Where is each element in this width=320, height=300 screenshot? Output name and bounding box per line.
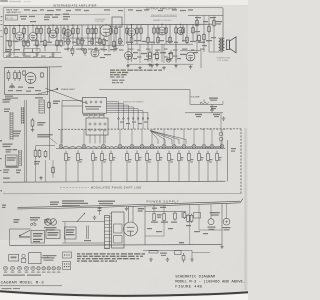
right second verticals [131, 44, 133, 62]
ps terminal T2 [82, 144, 86, 148]
module label strip [83, 114, 104, 115]
sub bus wire [5, 13, 110, 16]
ps coil L13 [214, 147, 220, 149]
resistor R31 [14, 70, 17, 81]
bl arrow [41, 257, 49, 259]
tc vert lines [35, 158, 37, 182]
ps resistor PR13 [198, 151, 201, 164]
osc labels A [24, 49, 33, 53]
osc bottom marks [8, 90, 41, 92]
svg-text:POWER SUPPLY: POWER SUPPLY [147, 199, 180, 203]
top-left corner smudge [0, 0, 31, 2]
rectifier drops [128, 206, 130, 222]
left section chains [5, 26, 7, 52]
paper blotches [0, 0, 248, 300]
left lower bus [4, 57, 62, 59]
lm mid labels [13, 131, 21, 137]
mid grounds [66, 47, 70, 51]
tc box [6, 155, 17, 166]
module lower terminals row2 [89, 129, 91, 131]
power section separator [3, 193, 241, 195]
resistor R51 [48, 101, 51, 109]
if can label [35, 97, 43, 98]
osc inner extra [23, 70, 26, 76]
ps resistor PR3 [92, 151, 95, 164]
socket caption [3, 275, 41, 276]
right page shadow band [243, 128, 248, 290]
lm labels top [3, 99, 11, 112]
out trans label [210, 212, 220, 216]
tc labels [6, 149, 17, 153]
ps coil L10 [186, 147, 192, 149]
coil L11 [20, 107, 22, 124]
svg-text:MODULATED PHASE SHIFT LINE: MODULATED PHASE SHIFT LINE [91, 187, 142, 190]
ps coil L6 [144, 147, 150, 149]
r51 label [53, 101, 60, 105]
ps terminal T14 [220, 144, 224, 148]
value labels row1 [6, 40, 210, 43]
ps inner right edge [227, 140, 229, 181]
ps enclosure top [58, 128, 241, 131]
filter res R40 [174, 212, 177, 221]
ps right lamp [219, 132, 223, 136]
mid osc labels [63, 14, 70, 20]
tube socket S4 [24, 266, 28, 270]
speaker LS1 [227, 37, 237, 53]
phono motor M1 [45, 219, 57, 226]
cap C11 [166, 58, 170, 62]
wave trap coil box [6, 16, 18, 21]
top labels left [50, 200, 115, 206]
mid h-wires [62, 37, 100, 39]
subtitle underline [151, 16, 178, 18]
bl box T2 [9, 255, 19, 262]
vibrato comps [149, 50, 152, 61]
ac entry marks [2, 205, 6, 209]
ps terminal T3 [102, 144, 106, 148]
wire plate to transformer [222, 8, 224, 38]
right section chains [126, 25, 128, 44]
wire vert x49 [49, 67, 51, 131]
bm resistor [149, 251, 158, 253]
ps resistor PR4 [101, 151, 104, 164]
fan labels [120, 122, 148, 125]
tc resistors [34, 149, 37, 158]
ps coil L5 [134, 147, 140, 149]
r50 label [37, 122, 45, 126]
right low wire [127, 63, 193, 65]
ps coil L1 [63, 147, 82, 149]
phase shift arrow left [36, 89, 58, 95]
right low labels [133, 52, 198, 55]
fuse marks [98, 208, 102, 212]
ps terminal T1 [59, 144, 63, 148]
svg-text:COUPLING: COUPLING [95, 21, 105, 23]
connector strip A [105, 216, 110, 249]
left top labels [20, 16, 58, 22]
tc comp right [44, 150, 47, 158]
bm comp 3 [182, 253, 185, 263]
junction dots [19, 24, 198, 27]
value labels row2 [64, 49, 205, 51]
svg-text:AMPLIFIER R.F.: AMPLIFIER R.F. [7, 11, 22, 14]
left edge specks [0, 140, 2, 191]
ps enclosure right [240, 129, 242, 194]
supply extra labels [147, 228, 208, 234]
bl big box [29, 253, 41, 264]
cap drops [153, 205, 155, 214]
oscillator enclosure [5, 68, 48, 95]
ps coil L2 [86, 147, 102, 149]
svg-text:PHASE SHIFT: PHASE SHIFT [61, 88, 76, 91]
tube V2 [29, 33, 37, 41]
bl caption [43, 255, 57, 261]
ps coil L9 [176, 147, 182, 149]
br drop wire [191, 250, 193, 257]
ps bus line 1 [18, 201, 241, 207]
switch lever 2 [77, 214, 85, 222]
left grounds [8, 53, 12, 57]
ps coil L3 [105, 147, 118, 149]
interlock box [65, 227, 77, 239]
rect box [46, 230, 60, 239]
tc coil [18, 150, 20, 166]
supply ground G60 [93, 216, 97, 220]
wire voice coil top [195, 15, 223, 17]
voltages note [110, 70, 162, 71]
fan wires [107, 102, 149, 130]
choke col [86, 226, 88, 240]
output resistors [196, 16, 198, 53]
ps top dots [153, 129, 231, 130]
volume pot R33 [200, 102, 209, 105]
cap can C21 [208, 219, 214, 225]
mid section chains [63, 25, 65, 46]
tube V5b second row [91, 49, 99, 57]
ps resistor PR12 [188, 151, 191, 164]
ac rating label [14, 219, 20, 223]
ps terminal T4 [118, 144, 122, 148]
osc labels text [5, 49, 20, 52]
tube V7 [158, 27, 166, 35]
module upper marks [85, 106, 101, 110]
wire lm bottom [36, 145, 55, 147]
volume ground [222, 117, 226, 121]
tube socket S10 [57, 267, 61, 271]
tube V3 [49, 30, 57, 38]
bm wire [143, 249, 192, 251]
mid note block [77, 253, 145, 254]
supply wire mid [145, 211, 186, 213]
ps right labels [231, 148, 236, 152]
osc sub labels [45, 14, 60, 15]
right h-wires [127, 43, 193, 45]
ps terminal T12 [202, 144, 206, 148]
tc ground [39, 176, 43, 180]
shield box top mid [112, 17, 122, 27]
supply bottom bus [10, 244, 223, 247]
right supply drop [221, 204, 223, 245]
ps resistor PR11 [178, 151, 181, 164]
leader to terminal [50, 138, 57, 144]
bm ground 2 [166, 258, 170, 262]
svg-text:INTERMEDIATE AMPLIFIER: INTERMEDIATE AMPLIFIER [53, 3, 97, 7]
module left wires [62, 100, 82, 102]
tube V12 second row left [125, 52, 133, 60]
connector tail 1 [63, 252, 72, 258]
ps terminal T6 [140, 144, 144, 148]
tone label [209, 98, 218, 101]
section divider [124, 8, 126, 45]
ps resistor PR15 [216, 151, 219, 164]
ps resistor PR9 [157, 151, 160, 164]
ps coil L7 [154, 147, 162, 149]
if can T3 [39, 100, 45, 113]
svg-text:VIBRATO CONTROL: VIBRATO CONTROL [153, 19, 173, 22]
bl panel line [0, 285, 62, 287]
bottom white margin [0, 293, 248, 300]
tc box strip [6, 166, 19, 167]
resistor R32 [18, 70, 21, 81]
wire v10 bus [180, 50, 201, 52]
rectifier tube V11 [124, 222, 138, 236]
volume wire top [190, 103, 223, 105]
rectifier label [138, 208, 145, 212]
ps terminal T8 [162, 144, 166, 148]
ps terminal T13 [210, 144, 214, 148]
supply comps right [181, 212, 183, 218]
ps terminal T11 [192, 144, 196, 148]
bplus label [179, 242, 184, 243]
under V5 chains [103, 36, 105, 52]
volume cap C12 [210, 104, 213, 112]
ps resistor PR7 [136, 151, 139, 164]
motor switch lever [20, 230, 30, 235]
tube socket S2 [10, 266, 14, 270]
tube socket S9 [52, 267, 56, 271]
volume labels sm [195, 114, 220, 117]
bm ground 1 [149, 258, 153, 262]
module upper box [82, 97, 106, 113]
bm labels [160, 253, 167, 256]
capacitor C10 [10, 83, 13, 89]
volume cap labels [210, 106, 217, 109]
connector tail 2 [63, 262, 71, 270]
ps coil L11 [196, 147, 202, 149]
tube socket S8 [47, 267, 51, 271]
right res pair [187, 214, 190, 223]
right grounds [126, 64, 130, 68]
svg-text:"VOLUME": "VOLUME" [190, 97, 200, 99]
module lower terminals row1 [89, 123, 91, 125]
tube V4 [65, 30, 72, 37]
ps bottom bus [3, 181, 226, 182]
wire right section [188, 15, 195, 17]
paper texture [0, 0, 248, 300]
tube socket S5 [31, 266, 35, 270]
far right labels [198, 34, 201, 42]
left margin dashes [1, 16, 3, 37]
ps terminal T9 [172, 144, 176, 148]
tube V1 [16, 32, 24, 40]
under-frame labels [24, 9, 193, 11]
ps coil L8 [166, 147, 172, 149]
svg-text:AMOUNT OF VIBRATO: AMOUNT OF VIBRATO [123, 101, 145, 104]
br ground [190, 258, 194, 262]
phono motor label [44, 227, 57, 231]
phase shift arrow right [99, 88, 190, 90]
grounds second row [148, 63, 152, 67]
connector strip B [112, 212, 125, 248]
supply bus labels [152, 207, 166, 209]
top frame line [3, 6, 223, 9]
ps resistor PR1 [65, 151, 68, 164]
left frame edge [2, 8, 4, 58]
supply gnd left [125, 207, 129, 211]
volume wire bottom [185, 112, 223, 114]
svg-text:FIGURE 44B: FIGURE 44B [175, 286, 202, 290]
svg-text:SCHEMATIC DIAGRAM: SCHEMATIC DIAGRAM [175, 275, 215, 279]
ps resistor PR8 [146, 151, 149, 164]
tube V6 [128, 28, 136, 36]
supply extra drops [189, 205, 191, 245]
filter cap C20 [153, 214, 166, 221]
svg-text:COIL 3 OHMS: COIL 3 OHMS [218, 60, 230, 62]
wire diagonal to module [45, 88, 88, 104]
bm comp 2 [175, 251, 182, 255]
ps resistor PR2 [77, 151, 80, 164]
mid second comps [71, 46, 74, 56]
ps terminal T10 [182, 144, 186, 148]
ps resistor PR14 [207, 151, 210, 164]
oscillator bus [5, 66, 63, 69]
tube socket S1 [3, 266, 7, 270]
left side tint [0, 60, 90, 240]
switch comp [44, 219, 49, 223]
cap can C22 [223, 218, 230, 225]
ps terminal T5 [130, 144, 134, 148]
ps label leader [60, 187, 89, 189]
ps resistor PR5 [110, 151, 113, 164]
mid supply wires [210, 205, 212, 219]
osc caption [5, 96, 18, 99]
ps terminal T7 [150, 144, 154, 148]
ps resistor PR6 [126, 151, 129, 164]
supply h wires [62, 221, 105, 223]
fan bundle [150, 131, 186, 145]
tube socket S7 [42, 267, 46, 271]
ps coil L4 [122, 147, 130, 149]
svg-text:DIAGRAM MODEL M-3: DIAGRAM MODEL M-3 [0, 282, 44, 286]
left h-wires [6, 40, 28, 42]
tube V10 [186, 52, 195, 61]
ground G50 [31, 128, 35, 132]
top edge light band [0, 0, 248, 5]
ps main line [56, 148, 226, 150]
wire volume to lamp [222, 101, 224, 104]
lm low labels [3, 144, 13, 148]
ps bus line 2 [18, 199, 244, 209]
tube socket S3 [17, 266, 21, 270]
fuse box [31, 231, 45, 244]
tube V8 [177, 28, 184, 35]
play switch [30, 217, 40, 221]
output transformer T1 [219, 38, 225, 52]
wire top row drops [20, 25, 181, 33]
supply ground [220, 245, 224, 249]
bl small stack [22, 254, 25, 257]
tc marks [3, 169, 21, 179]
module lower box [86, 118, 108, 135]
ps coil L12 [206, 147, 210, 149]
page background [0, 0, 248, 300]
right res box [194, 213, 201, 219]
coil L10 [9, 112, 11, 140]
left loop wire [9, 229, 11, 245]
tube V5 [100, 25, 112, 37]
module interbox stubs [88, 113, 90, 118]
module bottom stubs [90, 135, 105, 144]
main B+ bus [4, 24, 212, 25]
svg-text:WAVE TRAP: WAVE TRAP [6, 8, 19, 11]
bottom page edge shadow [0, 291, 248, 296]
ps resistor PR10 [168, 151, 171, 164]
double wire [24, 100, 26, 182]
right drop stubs [127, 44, 129, 63]
module upper terminals [85, 101, 87, 103]
resistor R50 [31, 118, 34, 128]
bl fine print [2, 288, 21, 289]
tube socket S6 [37, 267, 41, 271]
svg-text:MODEL M-3 - (109466 AND ABOVE.: MODEL M-3 - (109466 AND ABOVE. [175, 279, 245, 284]
value labels row3 [6, 56, 178, 58]
tube V9 oscillator [25, 73, 36, 84]
terminal board label [37, 134, 52, 137]
resistor R30 [7, 70, 10, 81]
